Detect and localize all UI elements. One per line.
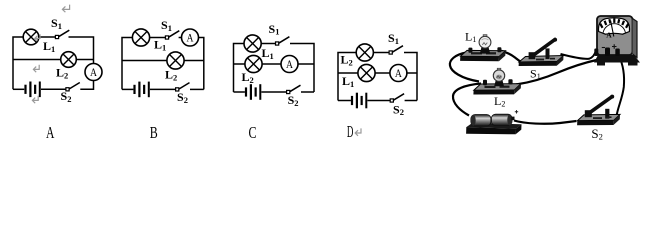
wire: D bottom-left to battery — [338, 100, 351, 102]
svg-text:S2: S2 — [288, 93, 299, 108]
switch S1 (C) — [276, 37, 290, 45]
wire: meter bottom down to S2 base right — [617, 56, 625, 116]
lamp L1 (B) — [132, 29, 149, 46]
switch S1 (A) — [55, 30, 69, 38]
svg-text:A: A — [46, 123, 55, 142]
svg-text:D: D — [347, 122, 354, 141]
meter scale window — [598, 18, 629, 34]
wire: S1 right to meter left terminal — [561, 51, 597, 59]
wire: L2 right post up to meter lower-left — [516, 60, 597, 85]
wire: C left and top side — [234, 44, 245, 93]
wire: B battery to switch S2 — [150, 88, 176, 90]
paragraph mark P5 (gray, after D) — [355, 128, 361, 135]
svg-text:L1: L1 — [43, 39, 55, 54]
ammeter A (circuit A) — [85, 64, 102, 81]
wire: A left and top side — [13, 37, 23, 89]
ammeter A (circuit C) — [281, 56, 298, 73]
svg-text:L2: L2 — [341, 53, 353, 68]
wire: A right vertical below ammeter — [80, 81, 93, 90]
wire: D lamp L1 to ammeter — [375, 72, 390, 74]
battery (B) — [133, 82, 149, 98]
paragraph mark P2 (gray) — [35, 34, 40, 41]
wire: B switch S2 to right corner — [190, 88, 204, 90]
wire: C switch S2 to right corner — [301, 91, 314, 93]
switch S2 (D) — [390, 94, 404, 102]
switch S2 (B) — [176, 83, 190, 91]
wire: B left and top side — [122, 38, 132, 90]
svg-text:S1: S1 — [388, 31, 399, 46]
paragraph mark P4 (gray) — [32, 96, 38, 103]
svg-text:C: C — [249, 123, 257, 142]
wire: D switch S1 to right edge, right vertical — [404, 53, 417, 101]
wire: C middle branch left segment — [234, 63, 245, 65]
svg-text:S2: S2 — [591, 126, 602, 142]
wire: C lamp L1 to switch S1 — [261, 43, 275, 45]
switch S1 (pictorial knife switch) — [519, 38, 564, 66]
svg-text:L1: L1 — [154, 38, 166, 53]
svg-text:B: B — [150, 123, 158, 142]
lamp L2 (C) — [245, 55, 262, 72]
wire: L1 right post to switch S1 left — [500, 51, 521, 62]
battery (A) — [24, 82, 40, 98]
wire: L1 left post down to L2 left post — [450, 53, 479, 82]
wire: A lamp L1 to switch S1 — [39, 36, 56, 38]
lamp L2 (D) — [356, 44, 373, 61]
wire: B lamp L1 to switch S1 — [150, 37, 166, 39]
wire: C ammeter to right edge — [298, 63, 314, 65]
svg-text:S1: S1 — [51, 16, 62, 31]
ammeter A (circuit B) — [182, 29, 199, 46]
wire: B switch S1 to ammeter — [179, 37, 182, 39]
svg-text:L1: L1 — [465, 30, 476, 45]
svg-text:S1: S1 — [161, 18, 172, 33]
svg-text:S2: S2 — [393, 102, 404, 117]
lamp L1 (C) — [244, 35, 261, 52]
wire: B bottom-left to battery — [122, 88, 133, 90]
meter terminals — [594, 49, 598, 57]
switch S2 (A) — [66, 83, 80, 91]
switch S1 (D) — [389, 46, 403, 54]
svg-text:S1: S1 — [530, 67, 541, 82]
lamp L1 (A) — [23, 29, 39, 45]
battery (C) — [245, 84, 261, 100]
battery (D) — [351, 93, 367, 109]
wire: B middle branch left segment — [122, 60, 167, 62]
wire: B middle branch right segment — [184, 60, 204, 62]
wire: D switch S2 to right corner — [405, 100, 417, 102]
wire: D lamp L2 to switch S1 — [373, 52, 389, 54]
paragraph mark P3 (gray) — [33, 65, 39, 72]
lamp L2 assembly: bulb — [493, 68, 504, 81]
wire: D battery to switch S2 — [367, 100, 390, 102]
lamp L1 assembly: platform — [460, 47, 505, 61]
lamp L2 assembly: socket — [494, 80, 504, 86]
lamp L1 assembly: socket — [480, 47, 490, 54]
wire: C switch S1 to right edge, right vertical — [290, 44, 314, 93]
svg-text:L1: L1 — [262, 46, 274, 61]
switch S2 (C) — [287, 85, 301, 93]
wire: battery right terminal to S2 left — [514, 121, 577, 124]
wire: A middle branch right segment — [76, 59, 93, 61]
paragraph mark P1 (gray, top) — [62, 5, 69, 13]
lamp L1 assembly: bulb — [479, 35, 491, 48]
svg-text:L1: L1 — [342, 74, 354, 89]
svg-text:L2: L2 — [165, 68, 177, 83]
wire: A bottom-left to battery — [13, 88, 24, 90]
wire: C battery to switch S2 — [261, 91, 286, 93]
ammeter (pictorial meter) — [594, 16, 640, 66]
battery (pictorial, two cells on base) — [466, 110, 521, 134]
svg-text:L2: L2 — [494, 94, 505, 109]
lamp L2 (A) — [61, 52, 77, 68]
wire: L2 left post down to battery left terminal — [453, 84, 481, 116]
ammeter A (circuit D) — [390, 65, 407, 82]
lamp L2 assembly: platform — [473, 79, 521, 94]
wire: B ammeter to right edge, right vertical — [199, 38, 204, 90]
lamp L1 (D) — [358, 64, 375, 81]
svg-text:S2: S2 — [61, 89, 72, 104]
svg-text:A: A — [606, 31, 612, 40]
svg-text:S1: S1 — [269, 22, 280, 37]
wire: A middle branch left segment — [13, 59, 61, 61]
switch S1 (B) — [165, 31, 179, 39]
meter needle — [611, 21, 614, 37]
wire: D left and top side — [338, 53, 356, 101]
lamp L2 (B) — [167, 52, 184, 69]
wire: A switch S1 to top-right corner — [69, 37, 94, 64]
wire: D ammeter to right edge — [407, 72, 417, 74]
wire: C lamp L2 to ammeter — [262, 63, 281, 65]
wire: A battery to switch S2 — [41, 88, 66, 90]
switch S2 (pictorial knife switch) — [577, 95, 620, 126]
svg-text:S2: S2 — [177, 90, 188, 105]
wire: D middle branch left segment — [338, 72, 358, 74]
wire: C bottom-left to battery — [234, 91, 245, 93]
